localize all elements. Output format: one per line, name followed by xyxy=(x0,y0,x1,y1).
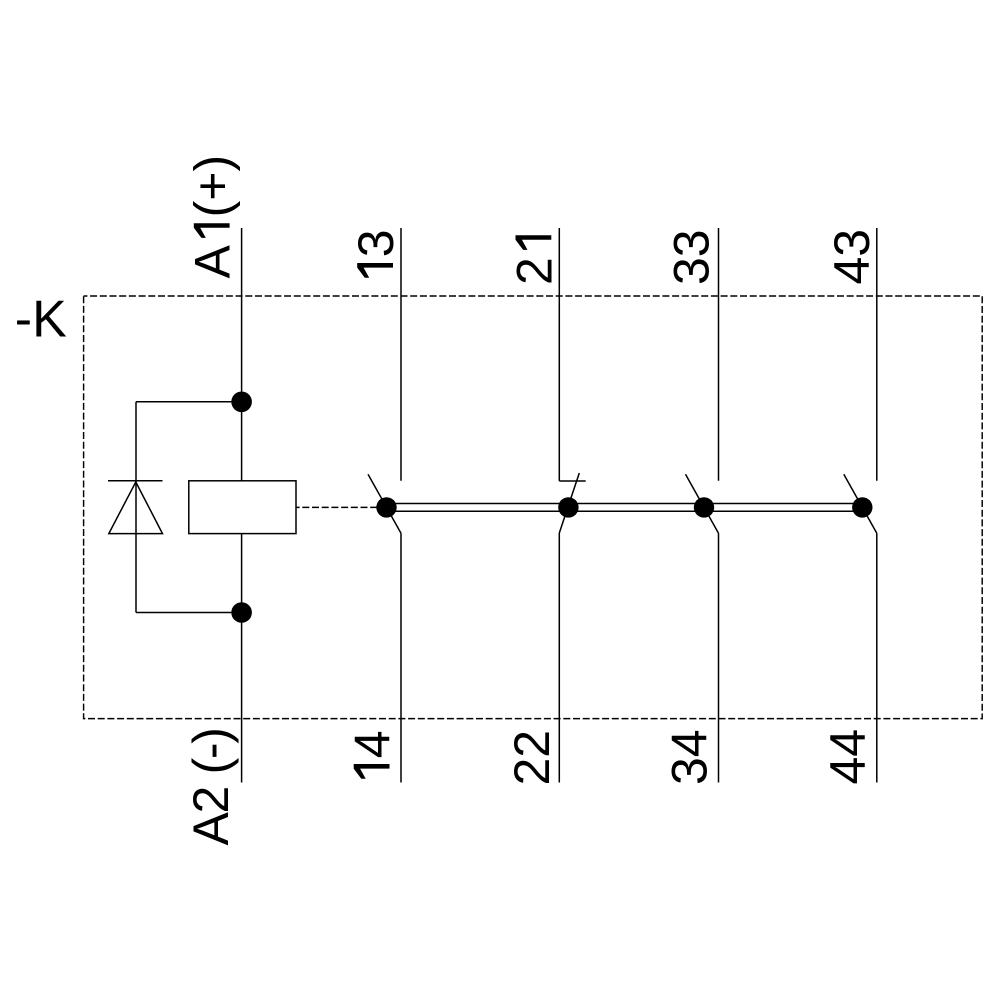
svg-text:43: 43 xyxy=(824,229,880,285)
svg-text:4: 4 xyxy=(345,730,401,758)
wire terminal 44 lead xyxy=(876,533,878,782)
terminal label A1(+) xyxy=(185,155,241,279)
svg-text:44: 44 xyxy=(820,729,876,785)
svg-text:(+): (+) xyxy=(185,155,241,218)
svg-text:A2 (-): A2 (-) xyxy=(183,727,239,845)
svg-text:2: 2 xyxy=(506,257,562,285)
svg-text:-K: -K xyxy=(15,291,67,349)
svg-text:33: 33 xyxy=(664,229,720,285)
wire terminal 14 lead xyxy=(400,533,402,782)
coil K1 rectangle xyxy=(189,481,296,534)
contact NC 21-22 stop bar xyxy=(559,480,585,482)
wire A1 terminal lead xyxy=(241,228,243,481)
node contact 21-22 linkage dot xyxy=(558,497,578,517)
contact NO 33-34 moving arm xyxy=(686,474,719,533)
wire terminal 21 lead xyxy=(558,228,560,481)
diode V1 cathode bar xyxy=(108,480,163,482)
contact NO 43-44 moving arm xyxy=(844,474,877,533)
node contact 33-34 linkage dot xyxy=(694,497,714,517)
wire dashed mechanical link from coil xyxy=(296,506,387,508)
contact NC 21-22 moving arm xyxy=(559,473,579,533)
svg-text:3: 3 xyxy=(348,229,404,257)
wire mechanical linkage bar lower xyxy=(387,510,864,512)
wire terminal 22 lead xyxy=(558,533,560,783)
wire terminal 43 lead xyxy=(876,228,878,481)
wire terminal 33 lead xyxy=(718,228,720,481)
wire mechanical linkage bar upper xyxy=(387,503,864,505)
relay outline dashed box -K xyxy=(84,296,983,719)
terminal label 21 xyxy=(506,235,562,285)
svg-text:A: A xyxy=(185,245,241,279)
contact NO 13-14 moving arm xyxy=(368,474,401,533)
wire A2 terminal lead xyxy=(241,534,243,783)
terminal label 14 xyxy=(345,730,401,778)
terminal label 13 xyxy=(348,229,404,277)
diode V1 triangle xyxy=(109,482,163,534)
wire junction to diode top xyxy=(136,401,242,403)
node contact 13-14 linkage dot xyxy=(376,497,396,517)
wire diode branch vertical xyxy=(135,402,137,613)
svg-text:22: 22 xyxy=(504,730,560,786)
svg-text:34: 34 xyxy=(662,729,718,785)
wire terminal 34 lead xyxy=(718,533,720,782)
node contact 43-44 linkage dot xyxy=(852,497,872,517)
node junction top of coil xyxy=(231,392,252,413)
node junction bottom of coil xyxy=(231,602,252,623)
wire terminal 13 lead xyxy=(400,228,402,481)
wire diode bottom to junction xyxy=(136,612,242,614)
